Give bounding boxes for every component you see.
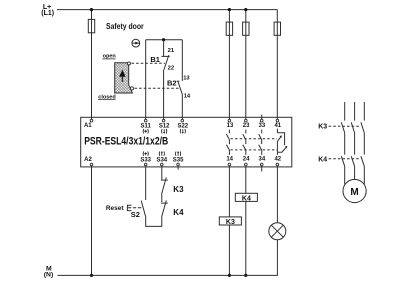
open label [103,54,117,60]
junction K3 on M rail [228,274,231,277]
junction on rail at 23 branch [244,8,247,11]
svg-text:B2: B2 [167,79,177,88]
svg-text:34: 34 [259,157,266,163]
svg-text:13: 13 [183,76,190,82]
svg-text:Reset: Reset [106,205,125,212]
contactor K3 main contact pole 1 [341,122,344,133]
svg-text:S33: S33 [140,157,151,163]
wire pole3 mid [363,133,365,155]
contact B2 (NO door contact) [177,40,183,119]
svg-text:S2: S2 [131,210,140,219]
svg-text:K4: K4 [318,156,327,163]
wire S2 to loop bottom [146,217,162,227]
svg-text:33: 33 [259,123,266,129]
svg-text:(N): (N) [44,271,53,278]
svg-text:A1: A1 [84,123,92,129]
svg-text:13: 13 [227,123,234,129]
svg-text:S12: S12 [159,123,170,129]
svg-text:S11: S11 [141,123,152,129]
open underline [102,58,115,60]
svg-text:S34: S34 [156,157,167,163]
terminal 42 [276,163,279,166]
feedback contact K4 (NC) [161,200,168,217]
wire bottom return rail M [58,274,278,276]
contactor K3 main contact pole 2 [351,122,354,133]
door movement arrow [119,70,125,82]
internal NC contact 41-42 [277,129,287,155]
internal relay contact 23-24 [243,130,246,155]
closed label [98,94,115,100]
contactor K4 main contact pole 2 [351,156,354,166]
svg-text:23: 23 [243,123,250,129]
node L+ (L1) label [41,4,54,17]
svg-text:41: 41 [274,123,281,129]
terminal labels bottom row [84,157,282,164]
three phase line L3 stub [363,102,365,121]
internal relay contact 33-34 [259,130,262,155]
terminal S35 [177,163,180,166]
safety relay U1 body [81,117,292,167]
safety door leaf (hatched) [115,63,133,93]
svg-text:K3: K3 [226,219,235,226]
wire lamp to M rail [276,240,278,276]
feedback contact K3 (NC) [161,166,168,194]
closed underline [98,98,116,100]
wire pole2 to motor [354,166,356,179]
svg-text:42: 42 [274,157,281,163]
svg-text:PSR-ESL4/3x1/1x2/B: PSR-ESL4/3x1/1x2/B [84,136,168,148]
stub above terminal 33 [261,115,263,119]
contactor K3 main contact pole 3 [361,122,364,133]
wire top supply rail L+ [57,9,277,11]
fuse F2 on 13 wire [226,22,232,35]
wire from rail to terminal 13 [228,10,230,119]
contact B1 (NC door contact) [162,40,170,119]
wire S11 [145,40,147,119]
terminal 41 [276,119,279,122]
junction on rail at 13 branch [228,8,231,11]
svg-text:S35: S35 [173,157,184,163]
terminal 24 [245,163,248,166]
terminal A2 [90,163,93,166]
door hinge contact point top [128,62,131,65]
terminal S11 [144,119,147,122]
svg-text:K4: K4 [242,195,251,202]
svg-text:M: M [350,187,358,198]
terminal S34 [161,163,164,166]
wire K3 coil to M rail [228,225,230,276]
svg-text:S22: S22 [177,123,188,129]
wire from rail to terminal 23 [245,10,247,119]
fuse F3 on 23 wire [243,22,249,35]
contactor K4 main contact pole 3 [361,156,364,166]
svg-text:Safety door: Safety door [106,22,144,31]
svg-text:B1: B1 [150,55,160,64]
contactor coil K4 [235,193,257,202]
svg-text:K3: K3 [318,123,327,130]
wire pole3 to motor [363,166,365,184]
mechanical link door to B2 (dashed) [135,87,180,89]
junction K4 on M rail [244,274,247,277]
indicator lamp H1 [269,223,286,240]
terminal 23 [245,119,248,122]
node wire S11 branch top [146,39,183,41]
door hinge contact point bottom [130,87,133,90]
motor M1 [343,179,366,202]
mechanical linkage dashed lower [231,149,278,151]
wire A2 to M rail [91,166,93,276]
fuse F1 on A1 wire [88,19,94,32]
terminal 14 [228,163,231,166]
svg-text:14: 14 [226,157,233,163]
svg-text:K4: K4 [173,208,184,217]
junction A2 on M rail [90,274,93,277]
wire 42 to indicator lamp [276,166,278,222]
wire 24 to K4 coil [245,166,247,193]
terminal circles top row [90,119,279,122]
three phase line L2 stub [354,102,356,121]
reset button S2 (NO manual) [127,201,145,217]
junction on rail at A1 branch [90,8,93,11]
K4 linkage dashed [329,158,360,160]
mechanical linkage dashed upper [231,138,278,140]
svg-text:22: 22 [168,66,174,72]
three phase line L1 stub [344,102,346,121]
svg-text:A2: A2 [84,157,92,163]
wire pole2 mid [354,133,356,155]
terminal 34 [260,163,263,166]
terminal S22 [181,119,184,122]
actuator direction symbol (circle with arrow) [132,39,141,47]
svg-text:(L1): (L1) [41,10,54,17]
wire K4 coil to M rail [245,201,247,275]
mechanical link door to B1 (dashed) [132,62,166,64]
svg-text:21: 21 [168,48,175,54]
contactor coil K3 [219,217,241,226]
internal relay contact 13-14 [226,130,229,155]
fuse F4 on 41 wire [274,22,280,35]
node M (N) label [44,265,53,278]
terminal A1 [90,119,93,122]
contactor K4 main contact pole 1 [341,156,344,166]
wire 14 to K3 coil [228,166,230,217]
terminal circles bottom row [90,163,279,166]
svg-text:K3: K3 [173,185,184,194]
wire between K3 and K4 contacts [161,194,163,202]
terminal S12 [162,119,165,122]
wire pole1 to motor [344,166,346,184]
wire from rail to A1 [91,10,93,119]
terminal 33 [260,119,263,122]
wire from rail corner to terminal 41 [276,10,278,119]
K3 linkage dashed [329,125,360,127]
wire S33 down to reset button [145,166,147,200]
terminal 13 [228,119,231,122]
wire pole1 mid [344,133,346,155]
terminal labels top row [84,123,282,130]
svg-text:14: 14 [184,93,191,99]
polarity marks bottom row [143,151,181,156]
svg-text:24: 24 [243,157,250,163]
stub below terminal S35 [177,166,179,169]
stub below terminal 34 [261,166,263,171]
terminal S33 [144,163,147,166]
junction at S12 branch [162,38,165,41]
polarity marks top row [143,129,185,134]
